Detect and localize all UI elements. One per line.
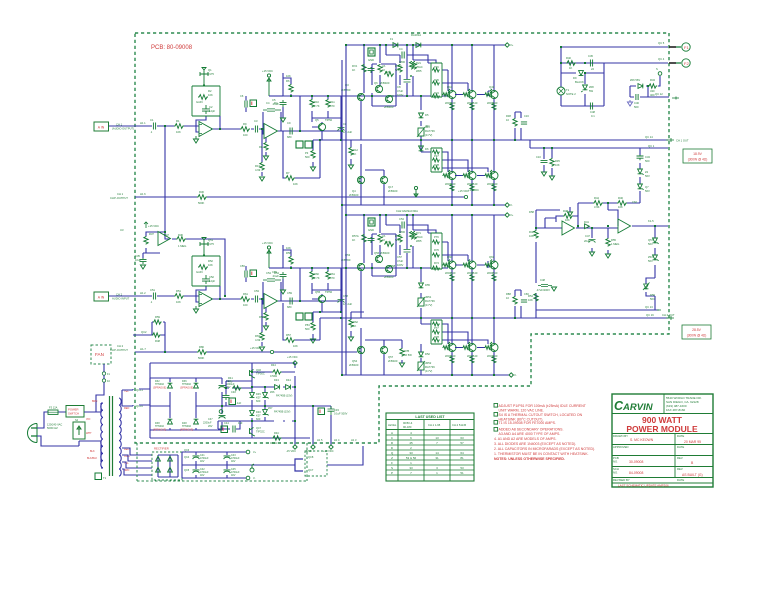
svg-text:RECTIFIER: RECTIFIER [154, 447, 169, 451]
svg-text:90-180: 90-180 [403, 425, 412, 429]
svg-text:R43: R43 [650, 78, 655, 82]
ground R12 [348, 165, 353, 169]
C6 cap + box CH1 [245, 100, 257, 108]
svg-text:S: S [656, 67, 658, 71]
svg-text:10K: 10K [208, 93, 213, 97]
capacitor C57 47uF polarized [404, 245, 413, 252]
wire -15 drop [294, 438, 296, 445]
wire Q3 to rail96 [356, 96, 372, 140]
transistor Q58 [385, 265, 392, 272]
svg-text:51: 51 [460, 471, 464, 475]
svg-text:R9: R9 [243, 122, 247, 126]
svg-text:C40: C40 [231, 390, 236, 394]
resistor R38 [513, 118, 517, 126]
resistor R36 [176, 237, 186, 242]
svg-text:0.1uF 500V: 0.1uF 500V [334, 412, 348, 416]
wire ground stub opampA [569, 207, 571, 212]
svg-text:A IN: A IN [98, 295, 105, 299]
supply arrow +15VDC CH2 [267, 246, 271, 268]
svg-text:D41: D41 [584, 220, 589, 224]
svg-text:Q63: Q63 [489, 255, 495, 259]
resistor R24 [432, 94, 440, 98]
wire second rail C54b [386, 215, 428, 233]
svg-text:+15 VDC: +15 VDC [323, 449, 334, 453]
svg-text:A3 AND A4 ARE 4000 TYPE OF AMP: A3 AND A4 ARE 4000 TYPE OF AMPS. [499, 432, 561, 436]
svg-text:D56: D56 [650, 293, 655, 297]
svg-text:25AC: 25AC [416, 65, 423, 69]
svg-text:SWITCH: SWITCH [68, 412, 79, 416]
terminal GND diamond [311, 445, 315, 449]
terminal V+ psu [246, 450, 250, 454]
capacitor C52 [202, 275, 210, 284]
svg-text:R36: R36 [178, 233, 183, 237]
resistor R42C vertical [398, 64, 402, 72]
svg-text:500: 500 [305, 327, 310, 331]
transistor Q14 W20B40 [468, 172, 476, 180]
wire servo top feed [536, 210, 562, 228]
wire bottom rail CH2 [361, 328, 509, 375]
svg-text:Q54: Q54 [352, 359, 358, 363]
resistor R51 [174, 294, 184, 299]
svg-text:100V: 100V [397, 93, 403, 97]
resistor R21 vertical double [410, 61, 417, 69]
svg-text:Q17: Q17 [388, 185, 394, 189]
transistor Q60 W20B40 [448, 261, 456, 269]
thermistor JR52 [418, 362, 424, 370]
svg-text:56V: 56V [648, 259, 653, 263]
diode D52 vertical [419, 352, 424, 357]
svg-text:JR51: JR51 [425, 295, 432, 299]
ground below R13 [259, 177, 264, 181]
capacitor C1 [153, 123, 155, 130]
svg-text:QC5: QC5 [184, 469, 190, 472]
supply arrow +15VDC U3 [144, 222, 148, 228]
wire upper bank emitters CH2 [452, 268, 494, 318]
QC8 dashed box [305, 451, 327, 476]
SHEET-BORDER [135, 33, 669, 443]
capacitor C6 vertical [368, 67, 375, 73]
svg-text:10K: 10K [565, 218, 570, 222]
junction dots CH2 driver [340, 214, 495, 376]
capacitor C40 [223, 394, 230, 400]
svg-text:POWER MODULE: POWER MODULE [626, 424, 698, 434]
svg-text:R37: R37 [149, 232, 154, 236]
labels CH1 mid [272, 74, 358, 186]
svg-text:C62: C62 [632, 200, 637, 204]
svg-text:C2: C2 [209, 105, 213, 109]
wire V+ top rail [364, 44, 505, 46]
svg-text:C5: C5 [272, 98, 276, 102]
svg-text:81: 81 [460, 456, 464, 460]
wire servo opamp U3 loop [143, 232, 176, 258]
diode D1 on V+ rail [393, 43, 398, 48]
svg-text:R8: R8 [259, 145, 263, 149]
wire upper bank collectors CH2 [452, 215, 494, 261]
svg-text:100: 100 [243, 133, 248, 137]
diode D48 [194, 419, 199, 424]
wire C8cap bus [406, 45, 408, 96]
terminal +15 top diamond [293, 361, 297, 365]
svg-text:C4: C4 [399, 47, 403, 51]
resistor P27 [432, 150, 440, 154]
resistor R10 vertical [310, 99, 314, 107]
wire U2 out to driver [300, 96, 341, 131]
wire out rail CH1 [320, 139, 668, 141]
transistor Q8 [385, 95, 392, 102]
svg-text:Q6: Q6 [374, 81, 378, 85]
svg-text:C56: C56 [240, 264, 245, 268]
svg-text:1 MEG: 1 MEG [178, 244, 186, 248]
svg-text:CH 1: CH 1 [116, 123, 123, 127]
svg-text:Z2: Z2 [645, 170, 649, 174]
svg-text:R11: R11 [330, 100, 335, 104]
svg-text:2N5400: 2N5400 [384, 275, 394, 279]
green box C48c [221, 426, 228, 433]
svg-text:10K: 10K [286, 74, 291, 78]
wire P3 R12 [313, 118, 351, 167]
supply dashed box A [137, 443, 307, 481]
wire lower bank [452, 140, 494, 205]
wire R44 row [252, 363, 295, 372]
svg-text:+15 VDC: +15 VDC [148, 224, 159, 228]
wire relay second row [561, 72, 604, 74]
zener Z35 [638, 184, 644, 190]
bridge diode BR1b [156, 467, 161, 472]
ground below U1 [193, 136, 198, 143]
bridge dashed box B [152, 452, 182, 480]
svg-text:W1.4: W1.4 [395, 68, 402, 72]
svg-text:D46: D46 [256, 410, 261, 414]
svg-text:D9: D9 [573, 76, 577, 80]
svg-text:Q47: Q47 [256, 426, 261, 430]
JFET Q51 [200, 238, 208, 257]
resistor R78 [432, 330, 440, 334]
wire C33 drop [330, 406, 332, 445]
svg-text:JR1: JR1 [425, 124, 430, 128]
bridge diode BR2b [168, 467, 173, 472]
wire C47 R55 shunts [592, 228, 608, 254]
op-amp U6A [562, 221, 575, 235]
svg-text:D58: D58 [529, 210, 534, 214]
wire C6 stub [245, 96, 247, 112]
resistor R57 [285, 338, 295, 343]
terminal +15VDC clip [464, 195, 467, 198]
svg-text:A IN: A IN [98, 125, 105, 129]
capacitor C2 [202, 105, 210, 114]
component labels CH2 input [120, 224, 292, 342]
svg-text:R6: R6 [286, 79, 290, 83]
capacitor C55 [280, 272, 287, 279]
svg-text:K1-5: K1-5 [648, 219, 654, 223]
svg-text:REV: REV [677, 456, 683, 460]
svg-text:Q56: Q56 [374, 251, 380, 255]
resistor R57A vertical [362, 234, 366, 242]
resistor R13 vertical [260, 162, 264, 170]
svg-text:RA7736: RA7736 [425, 299, 435, 303]
svg-text:C9: C9 [287, 121, 291, 125]
wire ladder top feed [413, 60, 468, 96]
wire opamp U4 output [211, 298, 264, 300]
resistor R60 vertical [310, 271, 314, 280]
transformer core [110, 396, 113, 476]
svg-text:33: 33 [409, 451, 413, 455]
svg-text:2. ALL CAPACITORS IN MICROFAR: 2. ALL CAPACITORS IN MICROFARADS (EXCEPT… [494, 447, 595, 451]
capacitor C9 [290, 128, 292, 135]
transistor Q63 W20B40 [490, 261, 498, 269]
input connector label CH1 [94, 122, 134, 131]
svg-text:10K: 10K [208, 263, 213, 267]
diode D5 vertical [419, 113, 424, 118]
svg-text:R41: R41 [228, 376, 233, 380]
feedback ladder box R2 R3 C2 [192, 86, 220, 116]
transistor Q65 W20B40 [468, 344, 476, 352]
wire bottom rail CH1 [361, 150, 505, 205]
JFET Q1 [200, 68, 208, 87]
wire upper bank collectors [452, 45, 494, 91]
svg-text:10K: 10K [286, 246, 291, 250]
resistor R7A vertical [362, 64, 366, 72]
wire CH1 audio input [108, 125, 199, 127]
svg-text:600: 600 [256, 399, 261, 403]
ground below U4 [193, 306, 198, 313]
svg-text:13: 13 [435, 436, 439, 440]
wire relay bottom [561, 63, 604, 106]
transistor Q17 CH1 lower [380, 176, 387, 183]
svg-text:(SPRAGUE): (SPRAGUE) [153, 428, 166, 431]
svg-text:Q4: Q4 [352, 189, 356, 193]
resistor R44 psu [272, 370, 282, 374]
ground R62 [348, 337, 353, 341]
emitter resistors CH1 upper bank [443, 93, 497, 364]
resistor R46 servo [617, 201, 627, 206]
svg-text:NO.: NO. [613, 460, 618, 464]
svg-text:90/50 &: 90/50 & [403, 421, 412, 425]
zener Q57z [653, 238, 659, 244]
supply arrow +15VDC CH1 [267, 74, 271, 96]
op-amp U6B [618, 219, 631, 233]
svg-text:10K: 10K [293, 344, 298, 348]
svg-text:R7: R7 [286, 171, 290, 175]
svg-text:10K: 10K [529, 234, 534, 238]
resistor R59 [153, 320, 162, 324]
trimmer green box P1 [296, 141, 303, 148]
svg-text:QC 16: QC 16 [646, 313, 654, 317]
svg-text:.1uF: .1uF [236, 401, 242, 405]
svg-text:P76: P76 [434, 235, 439, 239]
wire C56 stub [245, 266, 247, 282]
notes checkboxes [494, 404, 498, 432]
svg-text:CH 2 OUT: CH 2 OUT [662, 313, 675, 317]
labels rectifier [155, 380, 235, 428]
resistor R44 servo [593, 201, 603, 206]
svg-text:C3: C3 [254, 119, 258, 123]
svg-text:QC4: QC4 [184, 456, 190, 459]
svg-text:J175: J175 [208, 72, 214, 76]
svg-text:R2: R2 [208, 89, 212, 93]
speaker terminal F1 [669, 43, 690, 51]
svg-text:Z08: Z08 [589, 85, 594, 89]
wire ladder2 to opamp [196, 286, 220, 302]
wire rect mid taps [150, 405, 222, 407]
svg-text:R57: R57 [286, 333, 291, 337]
svg-text:F1: F1 [390, 37, 394, 41]
svg-text:W20B40: W20B40 [487, 271, 498, 275]
ladder lower box [431, 148, 442, 172]
resistor R62 vertical [349, 319, 353, 328]
svg-text:2A: 2A [382, 64, 385, 68]
svg-text:CH 1: CH 1 [117, 192, 124, 196]
junction dots CH2 input [164, 231, 301, 302]
resistor R4C [272, 436, 282, 440]
svg-text:R12: R12 [353, 148, 358, 152]
ground R7B [399, 363, 404, 367]
svg-text:10K: 10K [618, 205, 623, 209]
capacitor C58 polarized [338, 299, 345, 302]
transistor Q4 CH1 lower left [357, 176, 387, 183]
svg-text:C52: C52 [209, 275, 214, 279]
wire D56 jog [646, 278, 655, 296]
wire C58b bus [406, 215, 408, 268]
resistor R20 [384, 72, 394, 77]
svg-text:1K: 1K [352, 68, 355, 72]
svg-text:100V: 100V [397, 263, 403, 267]
transistor Q5 TIP50 [318, 123, 325, 130]
ground R55 [605, 254, 610, 258]
wire R56 C55 loop [283, 245, 291, 268]
capacitor C47 polarized [589, 239, 596, 242]
wire U5 out to driver [300, 268, 341, 301]
svg-text:10K: 10K [176, 130, 181, 134]
junction dots psu [221, 371, 314, 422]
svg-text:R59: R59 [155, 315, 160, 319]
diode D46 vertical [250, 411, 255, 416]
svg-text:QC 4: QC 4 [658, 57, 665, 61]
wire Z06 R43 network [630, 76, 669, 97]
svg-text:R26: R26 [434, 78, 439, 82]
svg-text:10K: 10K [528, 298, 533, 302]
wire switch to xfmr [84, 403, 103, 412]
svg-text:45: 45 [409, 441, 413, 445]
svg-text:CLIP-OUTPUT: CLIP-OUTPUT [110, 348, 128, 352]
svg-text:GND: GND [368, 228, 374, 232]
wire feedback vertical from input node [164, 126, 166, 232]
svg-text:R62: R62 [353, 320, 358, 324]
svg-text:BLK: BLK [90, 450, 95, 453]
CH2 output voltage box [682, 325, 711, 339]
AC plug [28, 424, 38, 443]
svg-text:H1-7: H1-7 [140, 347, 146, 351]
capacitor C66 [521, 300, 527, 302]
wire R13 shunt [261, 129, 263, 176]
wire QC1 second out [530, 140, 668, 148]
svg-text:QC8: QC8 [308, 455, 314, 459]
transistor Q3 [357, 93, 364, 100]
svg-text:1K: 1K [353, 324, 356, 328]
svg-text:2.7K: 2.7K [314, 104, 320, 108]
svg-text:C66: C66 [524, 292, 529, 296]
main V+ vertical bus [345, 45, 347, 375]
svg-text:10K: 10K [176, 300, 181, 304]
svg-text:R35: R35 [555, 159, 560, 163]
svg-text:F: F [391, 461, 393, 465]
wire R6 C5 loop [283, 73, 291, 96]
svg-text:PA745B (15V): PA745B (15V) [276, 394, 293, 398]
op-amp U4 [199, 292, 213, 307]
svg-text:C10: C10 [536, 155, 541, 159]
title block fields [613, 434, 684, 482]
transistor Q54 CH2 lower left [357, 346, 404, 367]
diode D41 [585, 224, 590, 229]
svg-text:NOTES: UNLESS OTHERWISE SPECI: NOTES: UNLESS OTHERWISE SPECIFIED. [494, 457, 565, 461]
svg-text:(AUDIO OUTPUT): (AUDIO OUTPUT) [112, 127, 134, 131]
terminal +15b diamond [329, 445, 333, 449]
wire R63 shunt [261, 299, 263, 346]
wire zener drop [264, 387, 266, 421]
wire opampA out [576, 203, 585, 228]
svg-text:R44: R44 [594, 196, 599, 200]
svg-text:20 MAR 95: 20 MAR 95 [684, 440, 701, 444]
terminal V+ CH2 [505, 213, 513, 377]
wire QC13 out [536, 310, 659, 318]
labels CH2 driver [341, 209, 517, 377]
ground C47 [589, 252, 594, 256]
svg-text:W20B40: W20B40 [445, 271, 456, 275]
emitter resistors CH2 upper bank [450, 274, 454, 281]
wire CH1 clip output [135, 196, 464, 198]
resistor R41 [232, 386, 241, 390]
svg-text:ADDED A8 SECONDARY OPERATIONS.: ADDED A8 SECONDARY OPERATIONS. [499, 428, 564, 432]
thermistor JR51 [418, 298, 424, 306]
svg-text:1. THERMISTOR MUST BE IN CONT: 1. THERMISTOR MUST BE IN CONTACT WITH HE… [494, 452, 589, 456]
svg-text:R28: R28 [434, 163, 439, 167]
svg-text:P26: P26 [434, 65, 439, 69]
terminal -15 bottom diamond [293, 445, 297, 449]
svg-text:P53: P53 [305, 323, 310, 327]
transformer label box [95, 473, 102, 480]
svg-text:56V: 56V [648, 242, 653, 246]
wire lower ladder CH2 [421, 318, 488, 344]
input connector label CH2 [94, 292, 130, 301]
ladder P76 upper box [431, 233, 442, 269]
resistor R7B vertical [400, 348, 404, 357]
green box C40b [229, 398, 236, 405]
svg-text:S4 IS A THERMAL CUTOUT SWITCH,: S4 IS A THERMAL CUTOUT SWITCH, LOCATED O… [499, 413, 583, 417]
svg-text:GAIN: GAIN [196, 100, 203, 104]
wire upper bank base bus CH2 [448, 242, 488, 268]
svg-text:.01uF: .01uF [272, 102, 279, 106]
svg-text:QC7: QC7 [308, 468, 314, 472]
title block address [666, 396, 702, 412]
svg-text:C44: C44 [224, 421, 229, 425]
svg-text:Q8: Q8 [390, 94, 394, 98]
svg-text:T1: T1 [566, 88, 570, 92]
svg-text:4.99: 4.99 [255, 338, 261, 342]
resistor R48 servo [563, 214, 573, 219]
wire diode row bottom [252, 387, 295, 438]
ground C5 [280, 118, 285, 122]
resistor P77 [432, 322, 440, 326]
svg-text:DATE: DATE [677, 445, 684, 449]
svg-text:12pF: 12pF [209, 109, 215, 113]
ground below R8 [263, 156, 268, 160]
ground C55 [280, 290, 285, 294]
svg-text:56V: 56V [645, 174, 650, 178]
trimmer green box P1b [305, 141, 312, 148]
svg-text:F3 12A: F3 12A [49, 406, 58, 410]
svg-text:(SPRAGUE): (SPRAGUE) [153, 386, 166, 389]
capacitor C48c [233, 426, 235, 433]
resistor R2 [198, 95, 208, 100]
